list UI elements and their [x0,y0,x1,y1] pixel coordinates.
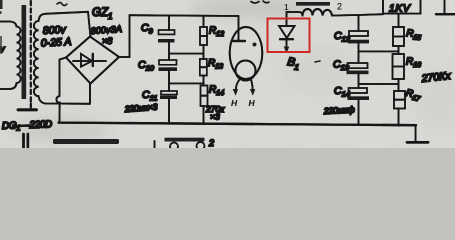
bottom-edge fragment: transformer core bar (next row, cut) [53,139,119,144]
diode B1 cathode bar [280,38,293,40]
capacitor C11 (- plate) [160,96,177,99]
svg-text:2: 2 [208,138,214,148]
1KV output box [383,0,421,14]
svg-text:1KV: 1KV [389,3,411,15]
core ground stub [18,103,37,110]
resistor R16 [393,54,405,79]
bottom-edge fragment: capacitor plates (next row, cut) [24,134,28,148]
svg-text:1: 1 [284,2,289,12]
kenotron anode bar [233,40,245,42]
ground bar [407,141,428,144]
svg-text:2: 2 [337,2,342,12]
wire R16 to R17 [398,79,400,91]
red highlight box [268,19,310,53]
kenotron tube top lead [238,16,240,40]
svg-text:×3: ×3 [210,112,220,122]
resistor R13 [200,59,207,76]
link wire C12/C13 node to R15/R16 node [359,50,399,52]
capacitor C14 (- plate) [348,96,370,100]
top rail (positive) [130,14,239,17]
capacitor C13 (- plate) [347,71,369,75]
cut handwriting fragment at top edge [57,3,67,6]
kenotron filament circle [236,61,256,81]
link wire C10/C11 node to R13/R14 node [169,82,204,84]
wire C13 to C14 [358,74,360,88]
paper background [0,0,455,148]
wire C11 to bus [168,99,170,124]
diode B1 triangle [279,26,295,38]
wire C9 to C10 [168,42,170,60]
adjacent-circuit capacitor fragment top right [436,0,455,14]
svg-text:×8: ×8 [102,36,112,46]
wire R17 to bus [398,109,400,126]
ground stub from bus [415,125,417,141]
svg-text:220мкф: 220мкф [323,104,355,116]
wire: bridge left vertex to bottom bus [60,58,67,97]
wire: bridge right vertex up to top rail [119,15,130,57]
capacitor C14 (+ plate) [349,88,368,93]
capacitor C12 (+ plate) [349,31,368,36]
svg-text:Н: Н [231,98,238,108]
capacitor C9 (+ plate) [159,30,175,34]
capacitor C13 (+ plate) [348,63,368,68]
capacitor C12 (- plate) [348,40,369,44]
svg-text:0·25 A: 0·25 A [41,36,72,50]
transformer core dashed line [30,1,32,106]
svg-text:800v: 800v [43,24,67,37]
wire R12 to R13 [203,45,205,59]
capacitor rail C12-C14 [358,15,360,31]
wire 1KV box to R15 [398,14,400,27]
wire R13 to R14 [203,76,205,86]
heater lead right with arrow [250,79,255,96]
wire C14 to bus [358,100,360,125]
diode B1 bottom lead with arrow [284,39,289,53]
bridge rectifier GZ1 diamond [66,37,119,84]
wire R15 to R16 [398,46,400,54]
transformer T1 secondary winding [34,12,90,104]
heater lead left with arrow [233,80,240,96]
link wire C9/C10 node to R12/R13 node [169,53,204,55]
wire: secondary top to bridge top vertex [88,12,91,37]
wire R14 to bus [203,106,205,124]
capacitor C10 (- plate) [159,67,178,71]
resistor R17 [394,91,405,109]
resistor R12 [200,27,207,45]
bottom-edge fragment: winding bar with loops (next row, cut) [165,138,205,151]
wire: bridge bottom vertex down and left [89,84,91,104]
stray pen mark [315,61,320,62]
page-edge dark mark top-left [0,0,3,9]
resistor R14 [201,86,208,107]
choke core bar [296,2,330,6]
wire C12 to C13 [358,43,360,63]
choke L winding [303,9,333,16]
bridge diode cathode bar [92,54,94,66]
capacitor C9 (- plate) [158,39,175,42]
svg-text:Н: Н [249,98,256,108]
resistor rail R12-R14 [203,16,205,27]
kenotron grid dot [253,43,257,47]
kenotron envelope [230,27,263,79]
bottom-edge fragment: plus tick [154,141,156,148]
capacitor rail C9-C11 [168,16,170,30]
bridge diode lead [73,60,106,62]
capacitor C11 (+ plate) [161,91,177,95]
resistor R15 [393,27,404,46]
link wire C13/C14 node to R16/R17 node [359,83,399,85]
capacitor C10 (+ plate) [159,60,177,65]
top-edge handwriting fragment [251,1,269,3]
bridge diode triangle [81,54,92,67]
wire choke to 1KV box [332,14,383,15]
transformer T1 primary winding (cut at left edge) [0,22,21,90]
transformer core (laminated bar) [22,5,27,99]
diode B1 top lead [287,12,303,26]
wire curl (hand-drawn loop) [56,96,59,123]
wire C10 to C11 [168,71,170,91]
bottom bus (negative rail) [59,123,417,126]
